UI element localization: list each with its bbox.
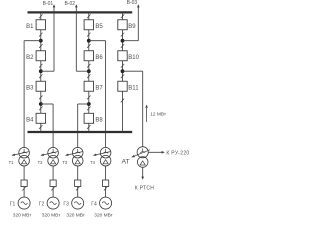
svg-text:В3: В3: [26, 85, 34, 91]
svg-text:В11: В11: [128, 85, 139, 91]
svg-text:В8: В8: [95, 118, 103, 124]
svg-text:К РТСН: К РТСН: [135, 186, 155, 192]
svg-text:12 МВт: 12 МВт: [150, 112, 167, 118]
svg-text:В5: В5: [95, 24, 103, 30]
svg-text:Т3: Т3: [62, 160, 68, 165]
svg-text:В10: В10: [128, 55, 139, 61]
svg-text:320 МВт: 320 МВт: [13, 212, 32, 218]
svg-text:К РУ-220: К РУ-220: [166, 151, 189, 157]
svg-text:Г3: Г3: [63, 202, 69, 208]
svg-text:Т1: Т1: [9, 160, 15, 165]
svg-text:Г1: Г1: [10, 202, 16, 208]
svg-text:В1: В1: [26, 24, 34, 30]
svg-text:Г2: Г2: [39, 202, 45, 208]
svg-text:Г4: Г4: [91, 202, 97, 208]
svg-text:В9: В9: [128, 24, 136, 30]
svg-text:Т4: Т4: [90, 160, 96, 165]
svg-text:320 МВт: 320 МВт: [42, 212, 61, 218]
svg-text:320 МВт: 320 МВт: [66, 212, 85, 218]
svg-text:В-02: В-02: [64, 1, 75, 7]
svg-text:АТ: АТ: [121, 159, 129, 166]
svg-text:320 МВт: 320 МВт: [94, 212, 113, 218]
svg-text:В7: В7: [95, 85, 103, 91]
svg-text:Т2: Т2: [38, 160, 44, 165]
svg-text:В-03: В-03: [127, 0, 138, 6]
svg-text:В-01: В-01: [43, 1, 54, 7]
svg-text:В2: В2: [26, 55, 34, 61]
svg-text:В4: В4: [26, 118, 34, 124]
svg-text:В6: В6: [95, 55, 103, 61]
